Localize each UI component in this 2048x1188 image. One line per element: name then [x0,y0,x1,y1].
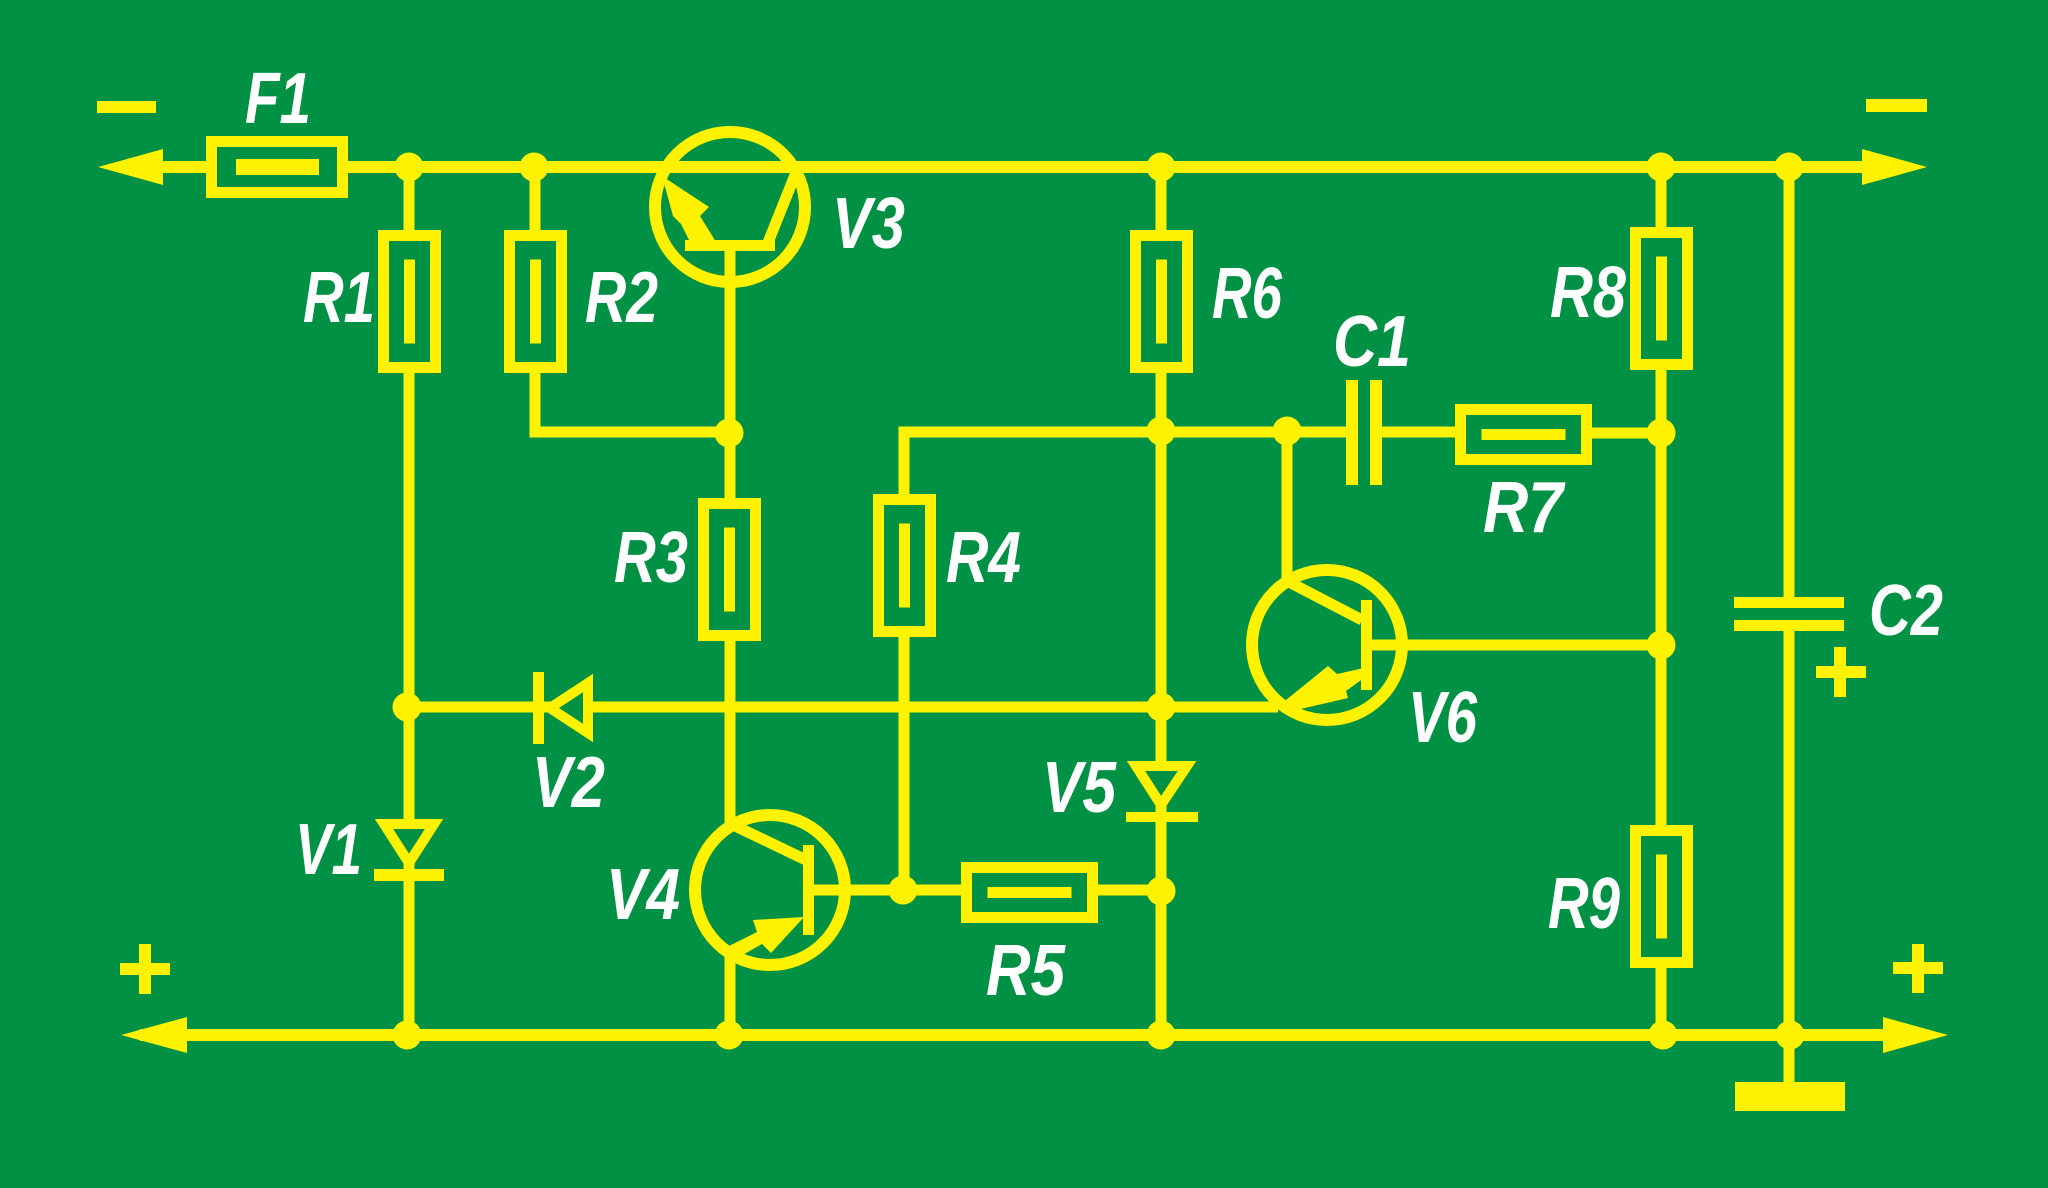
svg-text:V4: V4 [606,855,680,935]
svg-text:R6: R6 [1212,254,1283,334]
svg-text:V1: V1 [295,810,362,890]
svg-text:V2: V2 [532,743,605,823]
svg-text:R1: R1 [303,258,375,338]
svg-text:C1: C1 [1333,302,1411,382]
svg-text:C2: C2 [1869,571,1943,651]
svg-text:V5: V5 [1042,748,1117,828]
svg-text:V3: V3 [832,184,905,264]
svg-text:R8: R8 [1550,253,1626,333]
svg-text:R3: R3 [614,518,688,598]
svg-text:V6: V6 [1408,678,1478,758]
svg-text:F1: F1 [245,59,311,139]
svg-text:R9: R9 [1548,864,1620,944]
svg-text:R5: R5 [986,931,1066,1011]
svg-text:R7: R7 [1483,468,1566,548]
svg-text:R2: R2 [585,258,658,338]
svg-text:R4: R4 [946,518,1021,598]
